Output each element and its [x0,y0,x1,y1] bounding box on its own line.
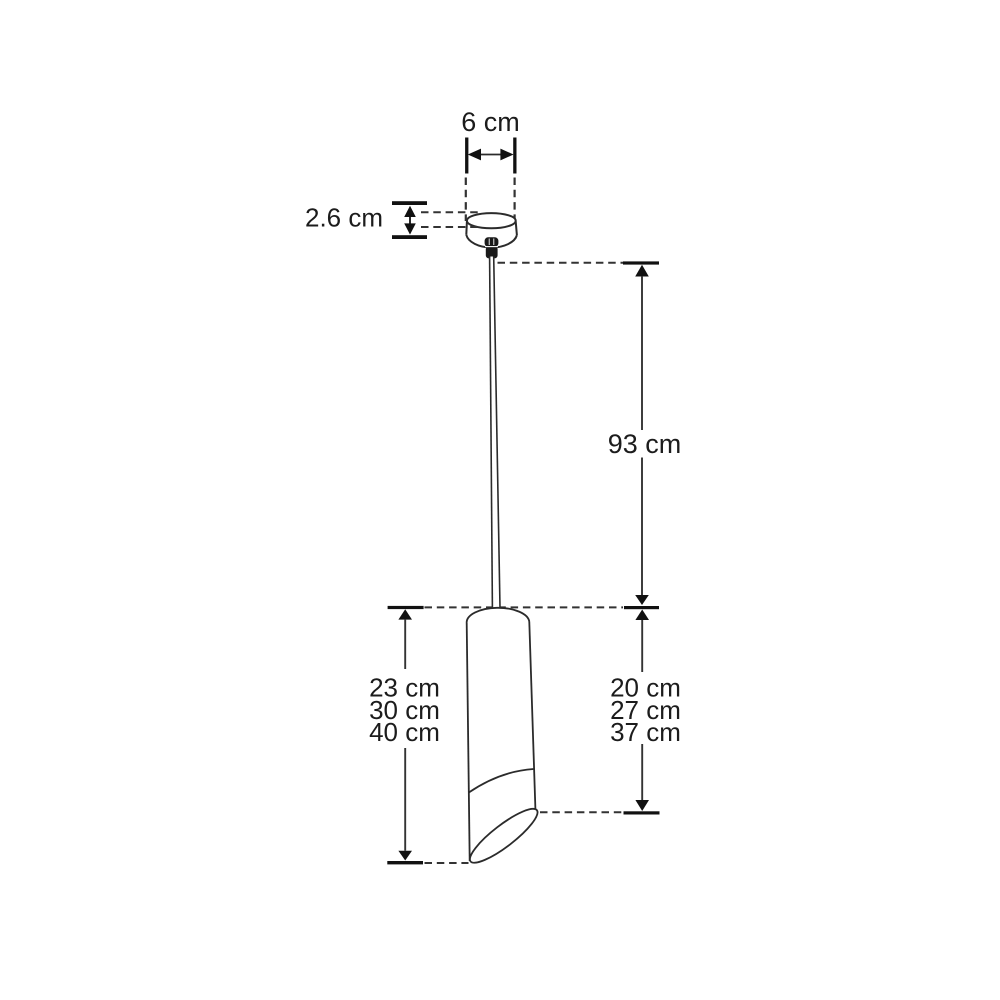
lamp shade silhouette [467,608,538,863]
junction mid-right: down arrow [635,595,649,605]
leader dashes top (93cm upper reference) [498,262,624,264]
svg-text:93 cm: 93 cm [608,429,682,459]
dimension line 20cm lower [641,744,643,800]
junction bottom-left: bar [387,861,423,864]
cord [490,257,500,608]
dimension line 93cm upper [641,276,643,430]
dimension 2.6cm ticks [392,201,427,239]
junction bottom-right: bar [624,811,660,814]
svg-text:40 cm: 40 cm [369,717,440,747]
junction top-right: up arrow [635,265,649,277]
dimension 2.6cm arrows [404,206,416,235]
junction bottom-right: down arrow [635,800,649,811]
junction mid-right: bar [624,606,659,609]
junction bottom-left: down arrow [398,851,412,861]
dimension 6cm ticks [465,138,516,174]
leader dashes 2.6cm top [421,211,481,213]
cord grip nipple [485,237,499,258]
svg-text:37 cm: 37 cm [610,717,681,747]
canopy body [466,213,517,247]
canopy top rim [467,213,516,228]
junction top-left: bar [388,606,424,609]
junction top-left: up arrow [398,609,412,619]
leader dashes bottom-left (shade bottom tip reference) [425,862,469,864]
dimension line 23cm upper [404,620,406,669]
dimension 6cm arrow [468,149,514,161]
dimension line 23cm lower [404,748,406,851]
leader dashes 2.6cm bottom [421,226,478,228]
dimension line 20cm upper [641,620,643,672]
leader dashes bottom-right (shade cut reference) [540,811,623,813]
junction mid-right: up arrow [635,610,649,621]
leader dashes middle (shade top reference) [425,606,624,608]
extension line left (6cm) [465,178,467,222]
svg-text:6 cm: 6 cm [461,107,520,137]
junction top-right: bar [623,261,659,264]
shade cut seam [469,769,534,793]
lamp shade outline [464,608,543,870]
dimension line 93cm lower [641,458,643,596]
shade bottom opening [464,802,543,870]
extension line right (6cm) [513,178,515,223]
svg-text:2.6 cm: 2.6 cm [305,203,383,233]
